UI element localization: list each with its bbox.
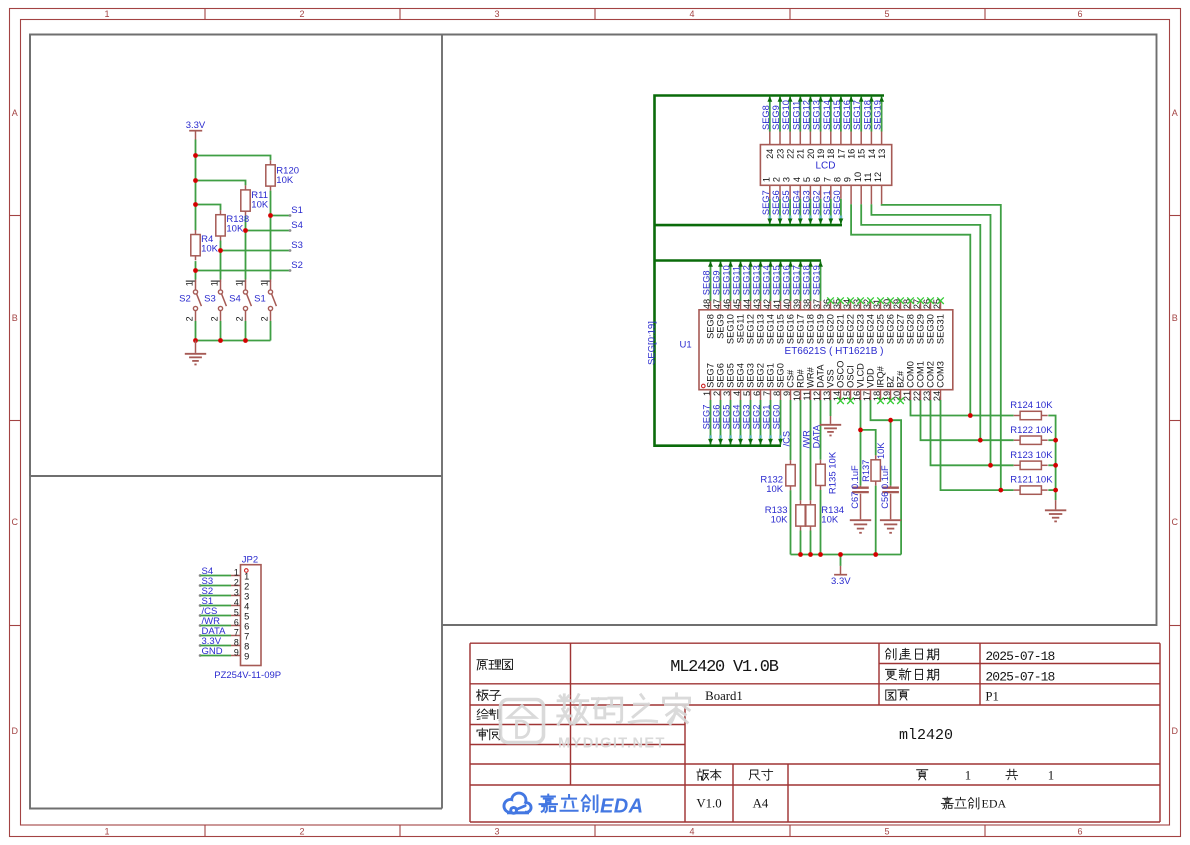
svg-text:3: 3 <box>494 9 499 19</box>
svg-text:U1: U1 <box>680 339 692 350</box>
svg-text:13: 13 <box>877 149 887 159</box>
wire switch S2 pin 2 to ground bus <box>195 321 197 341</box>
svg-text:2: 2 <box>210 316 220 321</box>
svg-text:EDA: EDA <box>600 796 643 818</box>
switch S1 <box>254 280 276 322</box>
svg-text:A4: A4 <box>753 797 769 811</box>
wire LCD pin 7 to bus <box>828 185 833 224</box>
svg-text:IRQ#: IRQ# <box>876 365 886 388</box>
wire U1 pin 41 to bus <box>778 261 783 310</box>
wire 3.3V to R138 <box>196 205 221 211</box>
no-connect mark <box>847 397 854 404</box>
svg-text:SEG8: SEG8 <box>761 105 771 130</box>
wire R133 to 3.3V rail <box>800 531 802 555</box>
svg-text:SEG0: SEG0 <box>776 363 786 388</box>
bus SEG[0:19] <box>655 96 885 446</box>
svg-text:SEG4: SEG4 <box>732 405 742 430</box>
svg-text:8: 8 <box>244 641 249 651</box>
wire LCD pin 20 to bus <box>808 96 813 145</box>
svg-text:SEG8: SEG8 <box>702 270 712 295</box>
svg-text:SEG14: SEG14 <box>766 314 776 344</box>
wire LCD pin 12 to COM row <box>882 185 1001 490</box>
svg-text:1: 1 <box>260 281 270 286</box>
svg-text:4: 4 <box>234 598 239 608</box>
svg-text:15: 15 <box>857 149 867 159</box>
resistor R121 10K <box>1010 475 1053 495</box>
svg-text:1: 1 <box>104 9 109 19</box>
U1 pin 33 stub <box>860 301 862 310</box>
svg-text:BZ: BZ <box>886 376 896 388</box>
svg-text:R124 10K: R124 10K <box>1010 400 1053 411</box>
wire LCD pin 10 to COM row <box>861 185 980 440</box>
svg-text:SEG15: SEG15 <box>776 314 786 344</box>
U1 pin 21 stub <box>910 390 912 400</box>
svg-text:DATA: DATA <box>816 364 826 388</box>
wire U1 pin 22 COM1 <box>921 400 1014 440</box>
U1 pin 28 stub <box>910 301 912 310</box>
wire U1 pin 46 to bus <box>728 261 733 310</box>
U1 pin 14 stub <box>840 390 842 400</box>
wire LCD pin 6 to bus <box>818 185 823 224</box>
wire LCD pin 11 to COM row <box>871 185 990 465</box>
no-connect mark <box>907 297 914 304</box>
svg-text:SEG5: SEG5 <box>781 190 791 215</box>
svg-text:SEG3: SEG3 <box>746 363 756 388</box>
svg-text:SEG19: SEG19 <box>873 100 883 130</box>
wire ground bus <box>196 340 271 342</box>
svg-text:3.3V: 3.3V <box>186 120 206 131</box>
svg-text:SEG8: SEG8 <box>706 314 716 339</box>
wire 3.3V pull-up rail <box>791 554 902 556</box>
wire U1 pin 16 VLCD <box>860 400 862 430</box>
U1 pin 13 stub <box>830 390 832 400</box>
U1 pin 29 stub <box>900 301 902 310</box>
wire U1 pin 1 to bus <box>708 390 713 445</box>
wire R138 to S3 node <box>220 241 222 251</box>
svg-text:SEG[0:19]: SEG[0:19] <box>646 321 657 365</box>
U1 pin numbers top 48..25 <box>702 299 942 309</box>
svg-text:SEG1: SEG1 <box>766 363 776 388</box>
U1 pin 16 stub <box>860 390 862 400</box>
svg-text:OSCI: OSCI <box>846 365 856 388</box>
U1 pin 27 stub <box>920 301 922 310</box>
wire switch S3 pin 2 to ground bus <box>220 321 222 341</box>
wire U1 pin 45 to bus <box>738 261 743 310</box>
svg-text:SEG29: SEG29 <box>916 314 926 344</box>
U1 pin 17 stub <box>870 390 872 400</box>
svg-text:7: 7 <box>244 631 249 641</box>
junction dots pull-up rail <box>798 418 893 557</box>
svg-text:6: 6 <box>244 621 249 631</box>
no-connect mark <box>897 297 904 304</box>
no-connect mark <box>837 397 844 404</box>
ground (C56) <box>880 494 901 533</box>
svg-text:SEG17: SEG17 <box>852 100 862 130</box>
svg-text:R122 10K: R122 10K <box>1010 425 1053 436</box>
svg-text:3: 3 <box>494 827 499 837</box>
svg-text:S1: S1 <box>291 205 303 216</box>
no-connect mark <box>897 397 904 404</box>
U1 pin names top SEG8..SEG31 <box>706 314 946 344</box>
svg-text:SEG22: SEG22 <box>846 314 856 344</box>
svg-text:SEG14: SEG14 <box>762 265 772 295</box>
wire R132 to 3.3V rail <box>790 490 792 554</box>
wire LCD pin 3 to bus <box>788 185 793 224</box>
svg-text:10K: 10K <box>766 484 784 495</box>
svg-text:4: 4 <box>792 177 802 182</box>
svg-text:2: 2 <box>299 827 304 837</box>
JP2 pin-1 marker <box>245 569 249 573</box>
capacitor C56 0.1uF <box>880 465 899 509</box>
svg-text:SEG10: SEG10 <box>722 265 732 295</box>
svg-text:SEG11: SEG11 <box>732 266 742 295</box>
svg-text:SEG24: SEG24 <box>866 314 876 344</box>
wire R11 to S4 node <box>245 216 247 231</box>
svg-text:ML2420 V1.0B: ML2420 V1.0B <box>670 658 778 677</box>
U1 pin numbers bottom 1..24 <box>702 391 942 401</box>
svg-text:5: 5 <box>234 608 239 618</box>
wire U1 pin 39 to bus <box>798 261 803 310</box>
svg-text:SEG13: SEG13 <box>752 265 762 295</box>
wire net S2 <box>196 269 292 272</box>
wire VLCD node down to C67 <box>860 430 862 488</box>
svg-text:VSS: VSS <box>826 369 836 388</box>
svg-text:D: D <box>1172 726 1179 736</box>
svg-text:10K: 10K <box>201 244 219 255</box>
wire net S1 <box>271 214 292 217</box>
wire LCD pin 17 to bus <box>839 96 844 145</box>
svg-text:SEG21: SEG21 <box>836 314 846 344</box>
U1 pin 11 stub <box>810 390 812 400</box>
bus branch LCD bottom <box>655 224 843 227</box>
switch S2 <box>179 280 201 322</box>
no-connect mark <box>827 297 834 304</box>
no-connect mark <box>837 297 844 304</box>
svg-text:1: 1 <box>1048 768 1054 782</box>
wire U1 pin 21 COM0 <box>911 400 1014 416</box>
svg-text:SEG31: SEG31 <box>936 314 946 344</box>
wire net S3 <box>221 249 292 252</box>
svg-text:SEG9: SEG9 <box>716 314 726 339</box>
svg-text:D: D <box>12 726 19 736</box>
JP2 pin number 4 <box>234 598 249 612</box>
no-connect mark <box>887 297 894 304</box>
wire R137 to 3.3V rail <box>875 486 877 555</box>
svg-text:R137: R137 <box>861 460 871 482</box>
svg-text:PZ254V-11-09P: PZ254V-11-09P <box>214 670 281 681</box>
svg-text:7: 7 <box>822 177 832 182</box>
wire JP2 pin 6 net /WR <box>199 624 241 627</box>
svg-text:4: 4 <box>689 9 694 19</box>
svg-text:VDD: VDD <box>866 368 876 388</box>
wire VDD node down to C56 <box>890 420 892 488</box>
svg-text:18: 18 <box>826 149 836 159</box>
wire U1 pin 9 CS# <box>790 400 792 460</box>
no-connect mark <box>927 297 934 304</box>
svg-text:1: 1 <box>185 281 195 286</box>
svg-text:JP2: JP2 <box>242 555 258 566</box>
svg-text:CS#: CS# <box>786 369 796 388</box>
resistor R11 10K <box>241 185 269 215</box>
svg-text:3: 3 <box>244 591 249 601</box>
wire U1 pin 5 to bus <box>748 390 753 445</box>
svg-text:SEG19: SEG19 <box>812 265 822 295</box>
svg-text:SEG18: SEG18 <box>802 265 812 295</box>
svg-text:SEG30: SEG30 <box>926 314 936 344</box>
svg-text:R123 10K: R123 10K <box>1010 450 1053 461</box>
wire U1 pin 37 to bus <box>818 261 823 310</box>
ground (COM divider) <box>1045 500 1066 521</box>
svg-text:SEG16: SEG16 <box>842 100 852 130</box>
svg-text:1: 1 <box>244 571 249 581</box>
wire to switch S4 pin 1 <box>245 231 247 280</box>
svg-text:SEG12: SEG12 <box>742 265 752 295</box>
svg-text:WR#: WR# <box>806 366 816 387</box>
bus branch U1 top <box>655 259 822 262</box>
power 3.3V (pull-up rail) <box>831 555 851 587</box>
svg-text:SEG4: SEG4 <box>791 190 801 215</box>
svg-text:R121 10K: R121 10K <box>1010 475 1053 486</box>
svg-text:C56 0.1uF: C56 0.1uF <box>880 465 890 509</box>
svg-text:COM3: COM3 <box>936 361 946 388</box>
wire LCD pin 24 to bus <box>767 96 772 145</box>
svg-text:S3: S3 <box>204 294 216 305</box>
svg-text:SEG13: SEG13 <box>756 314 766 344</box>
ground (C67) <box>850 494 871 533</box>
svg-text:SEG6: SEG6 <box>716 363 726 388</box>
JP2 pin number 3 <box>234 588 249 602</box>
svg-text:10K: 10K <box>876 442 886 459</box>
svg-text:10K: 10K <box>226 223 244 234</box>
svg-text:10K: 10K <box>276 175 294 186</box>
svg-text:8: 8 <box>833 177 843 182</box>
wire U1 pin 47 to bus <box>718 261 723 310</box>
svg-text:SEG2: SEG2 <box>756 363 766 388</box>
svg-text:SEG28: SEG28 <box>906 314 916 344</box>
wire JP2 pin 9 net GND <box>199 654 241 657</box>
wire net S4 <box>246 229 292 232</box>
wire JP2 pin 4 net S1 <box>199 604 241 607</box>
U1 pin 22 stub <box>920 390 922 400</box>
wire JP2 pin 7 net DATA <box>199 634 241 637</box>
svg-text:2025-07-18: 2025-07-18 <box>985 670 1054 685</box>
ground (VSS) <box>820 416 841 435</box>
svg-text:2: 2 <box>235 316 245 321</box>
wire U1 pin 13 VSS <box>830 400 832 416</box>
wire U1 pin 11 WR# <box>810 400 812 500</box>
svg-text:2: 2 <box>299 9 304 19</box>
IC U1 ET6621S (HT1621B) <box>699 310 953 390</box>
svg-text:A: A <box>12 108 18 118</box>
wire COM resistor common to ground <box>1048 416 1055 501</box>
svg-text:C: C <box>12 517 19 527</box>
wire U1 pin 43 to bus <box>758 261 763 310</box>
wire U1 pin 44 to bus <box>748 261 753 310</box>
svg-text:11: 11 <box>863 173 873 183</box>
svg-text:SEG2: SEG2 <box>752 405 762 430</box>
wire <box>1048 439 1055 441</box>
wire LCD pin 16 to bus <box>849 96 854 145</box>
wire JP2 pin 8 net 3.3V <box>199 644 241 647</box>
svg-text:10K: 10K <box>771 514 789 525</box>
svg-text:SEG25: SEG25 <box>876 314 886 344</box>
svg-text:3.3V: 3.3V <box>831 576 851 587</box>
svg-text:SEG17: SEG17 <box>792 265 802 295</box>
svg-text:SEG1: SEG1 <box>822 190 832 215</box>
wire R120 to S1 node <box>270 191 272 216</box>
resistor R122 10K <box>1010 425 1053 445</box>
U1 pin 18 stub <box>880 390 882 400</box>
svg-text:COM2: COM2 <box>926 361 936 388</box>
U1 pin 35 stub <box>840 301 842 310</box>
svg-text:S2: S2 <box>291 260 303 271</box>
U1 pin 26 stub <box>930 301 932 310</box>
U1 pin 31 stub <box>880 301 882 310</box>
svg-text:B: B <box>1172 313 1178 323</box>
wire JP2 pin 3 net S2 <box>199 594 241 597</box>
resistor R124 10K <box>1010 400 1053 420</box>
svg-text:SEG0: SEG0 <box>832 190 842 215</box>
wire JP2 pin 1 net S4 <box>199 574 241 577</box>
svg-text:2: 2 <box>772 177 782 182</box>
svg-text:SEG14: SEG14 <box>822 100 832 130</box>
svg-text:1: 1 <box>104 827 109 837</box>
svg-text:2: 2 <box>260 316 270 321</box>
svg-text:V1.0: V1.0 <box>696 797 721 811</box>
svg-text:16: 16 <box>847 149 857 159</box>
U1 pin 10 stub <box>800 390 802 400</box>
wire LCD pin 5 to bus <box>808 185 813 224</box>
U1 pin 36 stub <box>830 301 832 310</box>
ground (keypad) <box>185 341 206 365</box>
JP2 pin number 2 <box>234 578 249 592</box>
svg-text:VLCD: VLCD <box>856 363 866 388</box>
svg-text:SEG0: SEG0 <box>772 405 782 430</box>
svg-text:14: 14 <box>867 149 877 159</box>
no-connect mark <box>877 397 884 404</box>
resistor R134 10K <box>806 500 844 530</box>
resistor R133 10K <box>765 500 805 530</box>
svg-text:SEG20: SEG20 <box>826 314 836 344</box>
svg-text:SEG7: SEG7 <box>706 363 716 388</box>
U1 pin 20 stub <box>900 390 902 400</box>
JP2 pin number 9 <box>234 648 249 662</box>
svg-text:SEG18: SEG18 <box>862 100 872 130</box>
resistor R4 10K <box>191 230 219 260</box>
svg-text:/CS: /CS <box>782 431 792 447</box>
svg-text:1: 1 <box>235 281 245 286</box>
svg-text:20: 20 <box>806 149 816 159</box>
svg-text:1: 1 <box>234 568 239 578</box>
U1 pin 15 stub <box>850 390 852 400</box>
svg-text:1: 1 <box>210 281 220 286</box>
svg-text:SEG26: SEG26 <box>886 314 896 344</box>
svg-text:SEG11: SEG11 <box>736 314 746 343</box>
wire U1 pin 38 to bus <box>808 261 813 310</box>
wire LCD pin 22 to bus <box>788 96 793 145</box>
svg-text:4: 4 <box>689 827 694 837</box>
svg-text:SEG5: SEG5 <box>726 363 736 388</box>
power 3.3V (keypad) <box>186 120 206 139</box>
svg-text:12: 12 <box>873 172 883 182</box>
svg-text:S3: S3 <box>291 240 303 251</box>
svg-text:SEG7: SEG7 <box>761 190 771 215</box>
wire LCD pin 1 to bus <box>767 185 772 224</box>
no-connect mark <box>937 297 944 304</box>
svg-text:SEG11: SEG11 <box>791 101 801 130</box>
LCD pin numbers bottom 1..12 <box>761 172 883 182</box>
wire LCD pin 14 to bus <box>869 96 874 145</box>
no-connect mark <box>917 297 924 304</box>
svg-text:SEG10: SEG10 <box>726 314 736 344</box>
svg-text:P1: P1 <box>985 689 999 703</box>
JP2 pin number 6 <box>234 618 249 632</box>
svg-text:2: 2 <box>234 578 239 588</box>
wire U1 pin 40 to bus <box>788 261 793 310</box>
svg-text:SEG15: SEG15 <box>772 265 782 295</box>
wire LCD pin 19 to bus <box>818 96 823 145</box>
wire LCD pin 8 to bus <box>839 185 844 224</box>
JP2 pin number 1 <box>234 568 249 582</box>
wire to switch S3 pin 1 <box>220 251 222 280</box>
junction dots keypad <box>193 153 273 343</box>
svg-text:17: 17 <box>836 149 846 159</box>
svg-text:19: 19 <box>816 149 826 159</box>
svg-text:LCD: LCD <box>815 160 835 171</box>
wire 3.3V to R11 <box>196 181 246 186</box>
svg-text:10: 10 <box>853 172 863 182</box>
svg-text:SEG6: SEG6 <box>712 405 722 430</box>
svg-text:21: 21 <box>796 149 806 159</box>
wire LCD pin 4 to bus <box>798 185 803 224</box>
switch S4 <box>229 280 251 322</box>
wire JP2 pin 5 net /CS <box>199 614 241 617</box>
svg-text:SEG6: SEG6 <box>771 190 781 215</box>
svg-text:SEG3: SEG3 <box>801 190 811 215</box>
U1 pin 30 stub <box>890 301 892 310</box>
svg-text:SEG12: SEG12 <box>746 314 756 344</box>
wire <box>1048 489 1055 491</box>
svg-text:DATA: DATA <box>812 424 822 448</box>
U1 pin 12 stub <box>820 390 822 400</box>
svg-text:MYDIGIT.NET: MYDIGIT.NET <box>558 736 666 752</box>
svg-text:SEG3: SEG3 <box>742 405 752 430</box>
wire U1 pin 23 COM2 <box>931 400 1014 465</box>
JP2 pin number 8 <box>234 638 249 652</box>
wire U1 pin 2 to bus <box>718 390 723 445</box>
svg-text:SEG18: SEG18 <box>806 314 816 344</box>
svg-text:2: 2 <box>244 581 249 591</box>
wire to switch S1 pin 1 <box>270 216 272 280</box>
wire LCD pin 13 to bus <box>879 96 884 145</box>
svg-text:SEG16: SEG16 <box>782 265 792 295</box>
svg-text:9: 9 <box>843 177 853 182</box>
svg-text:10K: 10K <box>251 200 269 211</box>
wire U1 pin 6 to bus <box>758 390 763 445</box>
svg-text:SEG19: SEG19 <box>816 314 826 344</box>
wire LCD pin 2 to bus <box>778 185 783 224</box>
U1 pin 24 stub <box>940 390 942 400</box>
svg-text:2025-07-18: 2025-07-18 <box>985 649 1054 664</box>
wire LCD pin 21 to bus <box>798 96 803 145</box>
wire <box>1048 464 1055 466</box>
wire LCD pin 18 to bus <box>828 96 833 145</box>
wire R4 to S2 node <box>195 261 197 270</box>
svg-text:S1: S1 <box>254 294 266 305</box>
U1 pin 19 stub <box>890 390 892 400</box>
connector JP2 PZ254V-11-09P <box>241 565 262 666</box>
svg-text:ET6621S ( HT1621B ): ET6621S ( HT1621B ) <box>785 346 884 357</box>
